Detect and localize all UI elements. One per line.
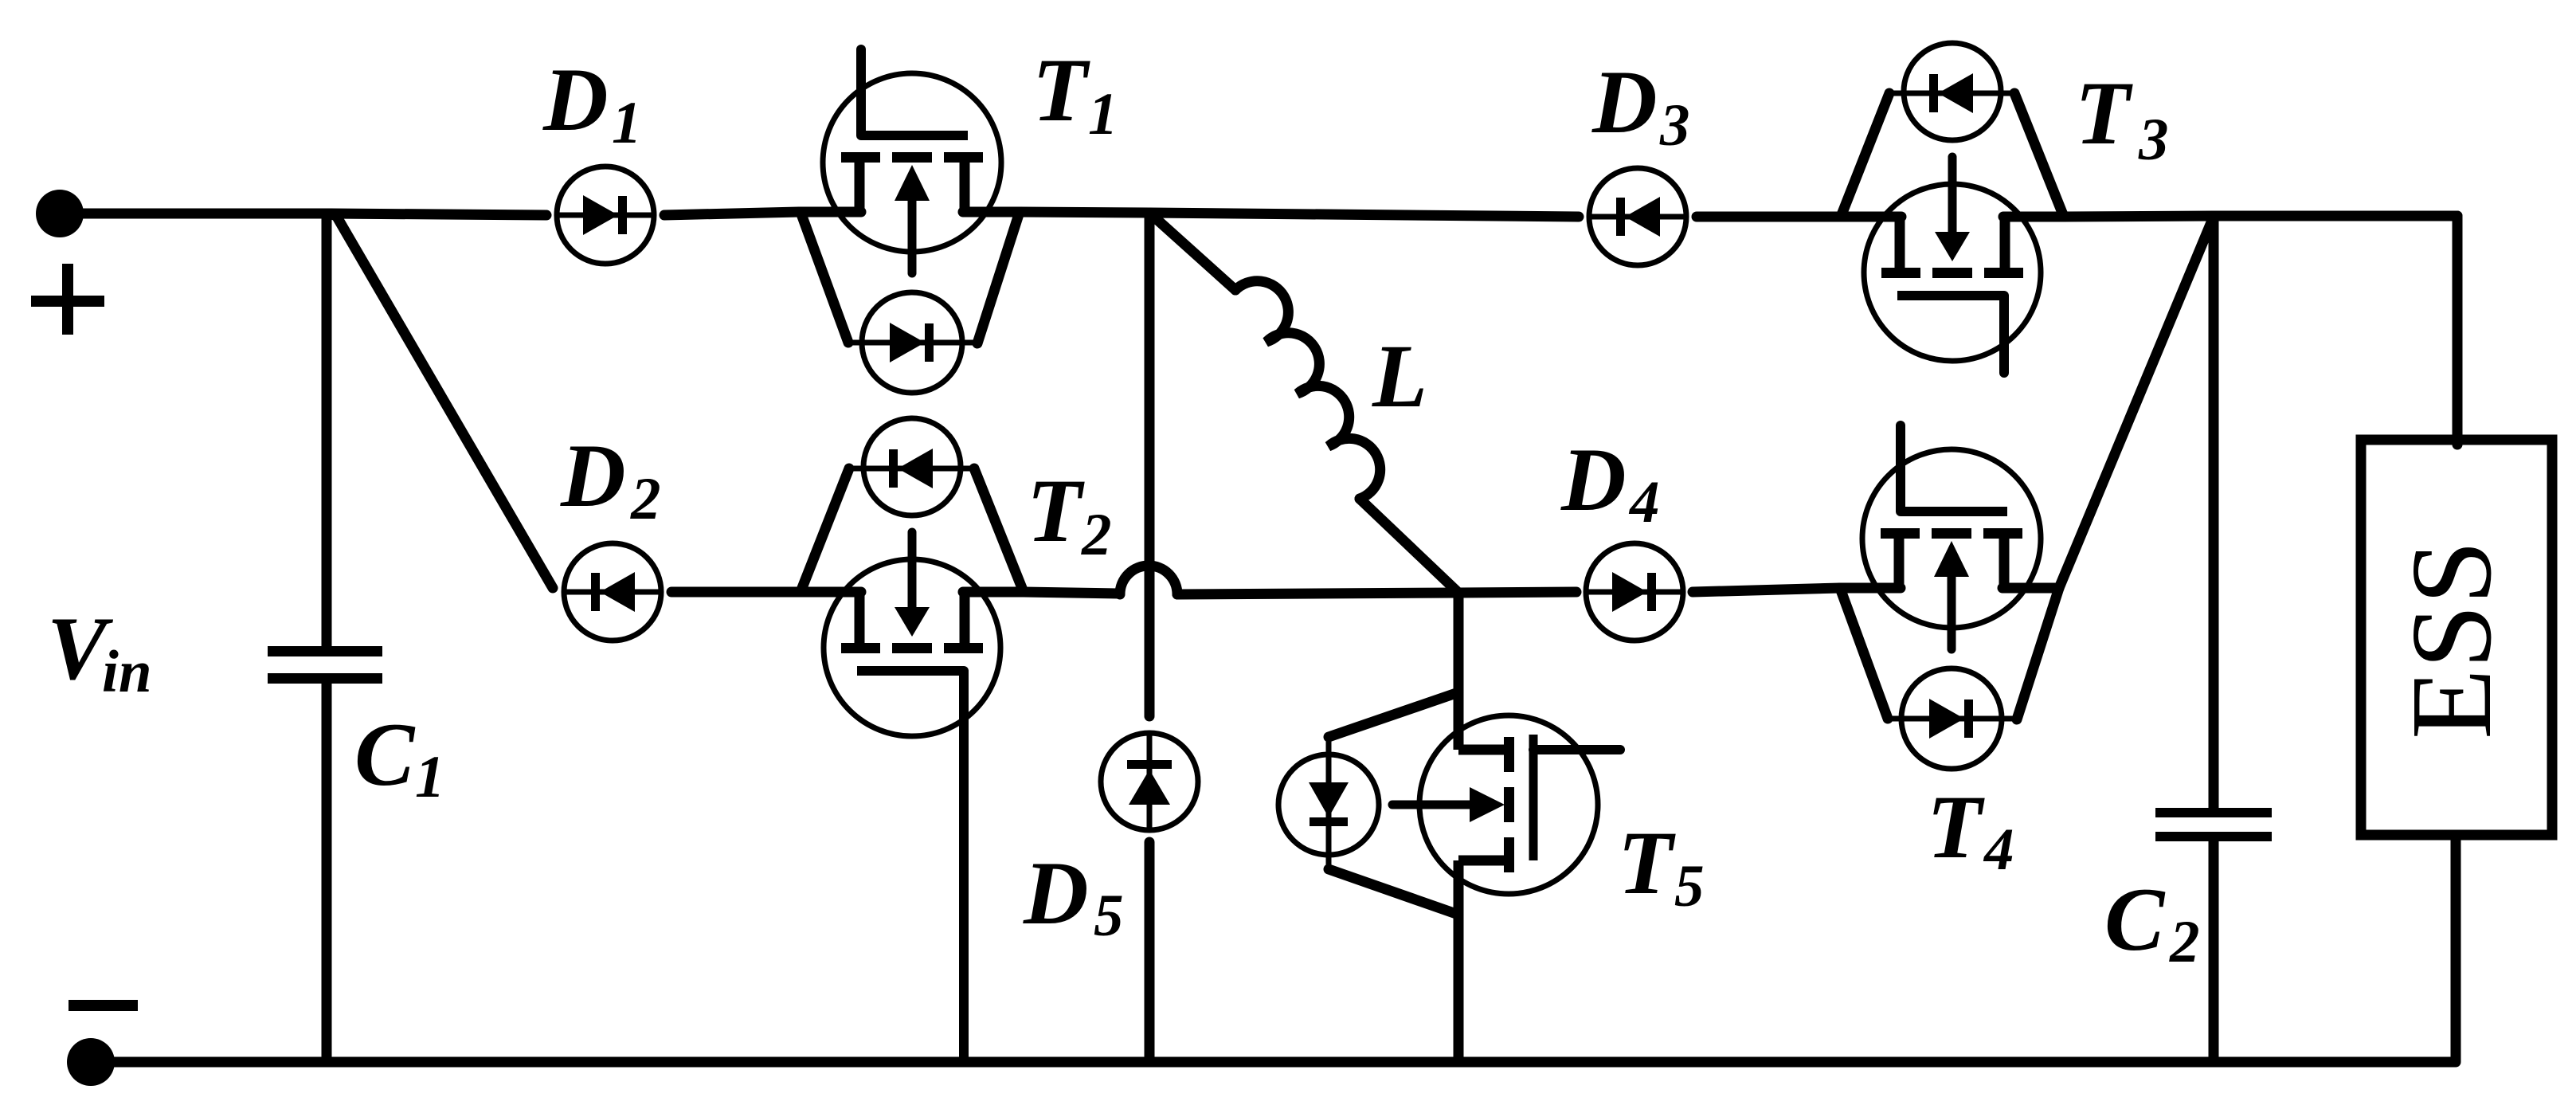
node negative input terminal	[67, 1038, 115, 1086]
svg-text:D: D	[542, 50, 609, 150]
transistor T2 (MOSFET with body diode)	[801, 418, 1024, 1062]
label - (negative polarity)	[69, 1000, 138, 1011]
node J2 (top junction above D5)	[1145, 213, 1155, 217]
label C1	[354, 705, 445, 810]
wire top rail: + terminal to node J1	[60, 209, 331, 219]
wire J4 down to T5 drain	[1454, 597, 1464, 750]
wire C1 bottom branch	[322, 684, 332, 1062]
transistor T4 (MOSFET with body diode)	[1840, 425, 2059, 769]
wire mid rail: T2 to hop	[1024, 592, 1120, 594]
label T3	[2075, 64, 2169, 173]
block ESS (energy storage system)	[2361, 440, 2552, 835]
wire C1 top branch	[322, 214, 332, 647]
capacitor C1	[268, 646, 382, 684]
inductor L	[1235, 281, 1380, 499]
label T2	[1027, 461, 1112, 568]
label T1	[1032, 41, 1118, 147]
wire right drop to ESS top	[2453, 216, 2463, 445]
wire top rail: T3 to node J3	[2064, 216, 2214, 217]
diode D1	[557, 167, 654, 264]
svg-text:3: 3	[1659, 92, 1690, 159]
wire diagonal J1 to D2	[338, 218, 553, 588]
wire T5 trapezoid top diagonal	[1329, 692, 1458, 737]
wire top rail: T1 to node J2	[1020, 212, 1149, 213]
svg-text:in: in	[102, 639, 152, 705]
label T5	[1618, 813, 1705, 919]
svg-text:2: 2	[1081, 502, 1112, 568]
wire mid rail: hop to node J4	[1177, 593, 1458, 594]
svg-text:1: 1	[415, 744, 445, 810]
svg-text:1: 1	[1088, 81, 1118, 147]
wire T5 source to bottom rail	[1454, 860, 1464, 1062]
svg-text:C: C	[2104, 870, 2166, 970]
svg-text:T: T	[1927, 778, 1985, 877]
svg-text:2: 2	[630, 466, 661, 532]
label D3	[1591, 53, 1690, 159]
wire D5 down to bottom rail	[1145, 842, 1155, 1062]
transistor T5 (MOSFET, sideways)	[1392, 715, 1620, 894]
label D1	[542, 50, 642, 156]
label C2	[2104, 870, 2200, 975]
svg-text:5: 5	[1094, 883, 1124, 949]
label + (positive polarity)	[31, 264, 104, 335]
diode D4	[1586, 543, 1683, 641]
wire mid rail: J4 to D4	[1458, 592, 1576, 593]
svg-text:4: 4	[1628, 469, 1660, 535]
svg-text:D: D	[1023, 844, 1089, 943]
wire ESS bottom to bottom rail	[2451, 835, 2461, 1062]
node J4 (mid junction L/T5)	[1454, 593, 1464, 597]
wire mid rail: D4 to T4	[1693, 588, 1840, 592]
node J1 (top-left junction)	[331, 214, 338, 217]
svg-text:1: 1	[612, 90, 642, 156]
wire top rail: J3 to top-right corner	[2214, 211, 2457, 221]
svg-text:3: 3	[2138, 107, 2169, 173]
wire C2 down to bottom rail	[2209, 841, 2219, 1062]
wire T5 trapezoid bottom diagonal	[1329, 869, 1458, 915]
wire top rail: D1 to T1	[664, 212, 799, 215]
svg-text:T: T	[1618, 813, 1676, 913]
svg-text:D: D	[1560, 430, 1627, 530]
diode D5	[1101, 733, 1198, 830]
label D2	[560, 426, 661, 532]
svg-text:L: L	[1372, 327, 1427, 426]
wire J2 down to D5	[1145, 217, 1155, 716]
wire J3 down to C2	[2209, 220, 2219, 808]
svg-text:ESS: ESS	[2388, 540, 2515, 739]
svg-text:T: T	[1027, 461, 1085, 561]
label L	[1372, 327, 1427, 426]
svg-text:D: D	[1591, 53, 1658, 152]
label D5	[1023, 844, 1124, 949]
transistor T3 (MOSFET with body diode)	[1841, 43, 2064, 373]
wire bottom rail	[91, 1057, 2456, 1068]
svg-text:5: 5	[1674, 853, 1705, 919]
svg-text:T: T	[2075, 64, 2133, 163]
svg-text:D: D	[560, 426, 626, 526]
wire J2 to inductor	[1149, 213, 1235, 290]
node positive input terminal	[36, 190, 84, 237]
transistor T1 (MOSFET with body diode)	[801, 49, 1020, 393]
label Vin	[47, 599, 152, 705]
label D4	[1560, 430, 1660, 535]
svg-text:T: T	[1032, 41, 1090, 140]
node J3 (top-right junction)	[2209, 216, 2219, 220]
wire top rail: J1 to D1	[331, 214, 546, 215]
wire top rail: J2 to D3	[1149, 213, 1579, 217]
wire hop over D5 branch	[1120, 566, 1177, 594]
diode T5 body diode (points down)	[1278, 737, 1379, 869]
wire top rail: D3 to T3	[1697, 212, 1841, 222]
diode D3	[1589, 168, 1686, 265]
wire inductor to J4	[1360, 499, 1458, 593]
label T4	[1927, 778, 2014, 883]
wire mid rail: D2 to T2	[671, 587, 801, 598]
svg-text:4: 4	[1983, 817, 2014, 883]
svg-text:C: C	[354, 705, 416, 805]
wire diagonal T4 to J3	[2059, 217, 2214, 588]
diode D2	[564, 543, 661, 641]
svg-text:2: 2	[2169, 909, 2200, 975]
capacitor C2	[2155, 808, 2272, 841]
